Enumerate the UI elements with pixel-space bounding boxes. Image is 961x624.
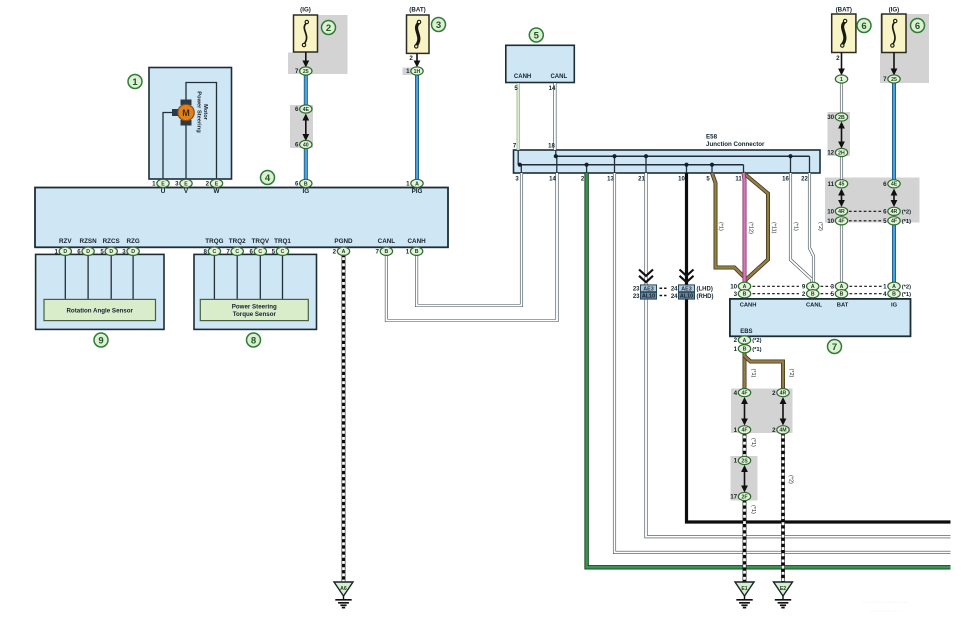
svg-text:(*2): (*2) (902, 285, 911, 291)
svg-text:7: 7 (832, 342, 837, 353)
svg-text:5: 5 (883, 218, 887, 225)
svg-text:C: C (213, 249, 217, 255)
svg-text:9: 9 (802, 284, 806, 291)
svg-text:2B: 2B (838, 115, 845, 121)
svg-text:(IG): (IG) (300, 7, 311, 14)
svg-text:E: E (161, 181, 165, 187)
svg-text:6: 6 (295, 142, 299, 149)
svg-text:TRQV: TRQV (252, 238, 270, 245)
svg-text:(*1): (*1) (752, 347, 761, 353)
svg-text:E: E (184, 181, 188, 187)
svg-text:E1: E1 (741, 586, 747, 592)
svg-text:PGND: PGND (334, 238, 353, 245)
svg-text:Power Steering: Power Steering (196, 91, 202, 133)
svg-text:··············: ·············· (869, 608, 902, 615)
svg-text:RZSN: RZSN (80, 238, 98, 245)
svg-text:22: 22 (801, 176, 808, 182)
svg-text:6: 6 (915, 21, 920, 32)
svg-text:2S: 2S (741, 458, 748, 464)
svg-text:CANL: CANL (378, 238, 396, 245)
svg-text:4E: 4E (891, 182, 898, 188)
svg-text:(*1): (*1) (750, 505, 756, 514)
svg-text:4R: 4R (838, 209, 845, 215)
svg-text:D: D (86, 249, 90, 255)
svg-text:(*1): (*1) (750, 438, 756, 447)
svg-text:IG: IG (891, 302, 898, 308)
svg-text:6: 6 (861, 21, 866, 32)
svg-text:B: B (743, 292, 747, 298)
svg-text:1: 1 (840, 77, 843, 83)
svg-text:14: 14 (549, 86, 556, 92)
svg-text:7: 7 (513, 143, 517, 149)
svg-text:5: 5 (100, 249, 104, 256)
svg-text:4R: 4R (780, 391, 787, 397)
svg-text:Rotation Angle Sensor: Rotation Angle Sensor (66, 307, 133, 314)
svg-text:W: W (214, 188, 220, 195)
svg-text:B: B (743, 347, 747, 353)
svg-text:CANH: CANH (740, 302, 757, 308)
svg-text:5: 5 (272, 249, 276, 256)
svg-text:3: 3 (831, 284, 835, 291)
svg-text:B: B (415, 249, 419, 255)
svg-text:1: 1 (54, 249, 58, 256)
svg-text:····················: ···················· (862, 599, 909, 606)
svg-text:14: 14 (549, 176, 556, 182)
svg-text:2: 2 (581, 176, 585, 182)
svg-text:4: 4 (265, 173, 271, 184)
svg-text:B: B (385, 249, 389, 255)
svg-text:2: 2 (326, 23, 331, 34)
svg-text:RZCS: RZCS (103, 238, 120, 245)
svg-text:6: 6 (883, 209, 887, 216)
svg-text:4: 4 (734, 390, 738, 397)
svg-text:3: 3 (122, 249, 126, 256)
svg-text:10: 10 (827, 218, 834, 225)
svg-text:10: 10 (827, 209, 834, 216)
svg-text:3: 3 (436, 20, 441, 31)
svg-text:2H: 2H (838, 150, 845, 156)
svg-text:1H: 1H (414, 69, 421, 75)
svg-text:21: 21 (638, 176, 645, 182)
svg-text:25: 25 (303, 69, 309, 75)
svg-text:A6: A6 (340, 586, 347, 592)
svg-text:(BAT): (BAT) (409, 7, 425, 14)
svg-text:(*2): (*2) (752, 338, 761, 344)
svg-text:(*1): (*1) (793, 222, 799, 231)
svg-text:1: 1 (883, 284, 887, 291)
svg-text:AE3: AE3 (643, 286, 654, 292)
svg-text:45: 45 (839, 182, 845, 188)
svg-text:(*11): (*11) (771, 222, 777, 234)
svg-text:3: 3 (515, 176, 519, 182)
svg-text:7: 7 (226, 249, 230, 256)
svg-text:(*2): (*2) (788, 475, 794, 484)
svg-text:2: 2 (836, 55, 840, 62)
svg-text:1: 1 (152, 181, 156, 188)
svg-text:RZV: RZV (59, 238, 72, 245)
svg-text:40: 40 (303, 142, 309, 148)
svg-text:3: 3 (175, 181, 179, 188)
svg-text:1: 1 (406, 181, 410, 188)
svg-text:5: 5 (534, 30, 540, 41)
svg-text:2F: 2F (741, 494, 747, 500)
svg-text:8: 8 (251, 335, 256, 346)
svg-text:8: 8 (204, 249, 208, 256)
svg-text:C: C (281, 249, 285, 255)
svg-text:D: D (63, 249, 67, 255)
svg-text:2: 2 (734, 337, 738, 344)
svg-text:4E: 4E (303, 107, 310, 113)
svg-text:4F: 4F (838, 219, 844, 225)
svg-text:6: 6 (249, 249, 253, 256)
svg-text:24: 24 (671, 294, 678, 300)
svg-text:Motor: Motor (202, 104, 208, 121)
svg-text:(*1): (*1) (902, 292, 911, 298)
svg-text:24: 24 (671, 287, 678, 293)
svg-text:13: 13 (607, 176, 614, 182)
svg-text:1: 1 (132, 77, 138, 88)
svg-text:A: A (342, 249, 346, 255)
svg-text:2: 2 (772, 427, 776, 434)
svg-text:12: 12 (827, 150, 834, 157)
svg-text:30: 30 (827, 114, 834, 121)
svg-text:M: M (182, 108, 190, 118)
svg-text:BAT: BAT (837, 302, 849, 308)
svg-text:7: 7 (883, 76, 887, 83)
svg-text:Junction Connector: Junction Connector (706, 141, 765, 148)
svg-text:(*2): (*2) (817, 222, 823, 231)
svg-text:25: 25 (891, 77, 897, 83)
svg-text:E58: E58 (706, 134, 718, 141)
svg-text:TRQ2: TRQ2 (229, 238, 246, 245)
svg-text:A: A (743, 338, 747, 344)
svg-text:1: 1 (734, 427, 738, 434)
svg-text:CANL: CANL (806, 302, 823, 308)
svg-text:4F: 4F (741, 428, 747, 434)
svg-text:(IG): (IG) (889, 7, 900, 14)
svg-text:CANL: CANL (550, 74, 567, 80)
svg-text:1: 1 (406, 68, 410, 75)
svg-text:CANH: CANH (514, 74, 531, 80)
svg-text:(*2): (*2) (788, 369, 794, 378)
svg-text:(*12): (*12) (748, 222, 754, 234)
svg-text:2: 2 (772, 390, 776, 397)
svg-text:6: 6 (295, 181, 299, 188)
svg-text:4R: 4R (891, 209, 898, 215)
svg-text:D: D (131, 249, 135, 255)
svg-text:1: 1 (734, 346, 738, 353)
svg-text:6: 6 (883, 181, 887, 188)
svg-text:TRQ1: TRQ1 (274, 238, 291, 245)
svg-text:4F: 4F (741, 391, 747, 397)
svg-text:EBS: EBS (740, 329, 752, 335)
svg-text:B: B (892, 292, 896, 298)
svg-text:Power Steering: Power Steering (232, 304, 277, 311)
svg-text:17: 17 (730, 494, 737, 501)
svg-text:23: 23 (633, 294, 640, 300)
svg-text:RZG: RZG (126, 238, 139, 245)
svg-text:(*1): (*1) (718, 222, 724, 231)
svg-text:(RHD): (RHD) (697, 294, 714, 300)
svg-text:11: 11 (735, 176, 742, 182)
svg-text:AL10: AL10 (642, 294, 655, 300)
svg-text:C: C (235, 249, 239, 255)
svg-text:Torque Sensor: Torque Sensor (233, 311, 277, 318)
svg-text:E: E (215, 181, 219, 187)
svg-text:CANH: CANH (407, 238, 426, 245)
svg-text:(*2): (*2) (902, 210, 911, 216)
svg-text:4M: 4M (779, 428, 786, 434)
svg-text:5: 5 (831, 291, 835, 298)
svg-text:B: B (840, 292, 844, 298)
svg-text:10: 10 (678, 176, 685, 182)
svg-text:5: 5 (706, 176, 710, 182)
svg-text:(LHD): (LHD) (697, 287, 713, 293)
svg-text:B: B (811, 292, 815, 298)
svg-text:10: 10 (730, 284, 737, 291)
svg-text:TRQG: TRQG (205, 238, 223, 245)
svg-text:D: D (109, 249, 113, 255)
svg-text:7: 7 (376, 249, 380, 256)
svg-text:2: 2 (333, 249, 337, 256)
svg-text:(*1): (*1) (750, 369, 756, 378)
svg-text:1: 1 (734, 458, 738, 465)
svg-text:E2: E2 (780, 586, 786, 592)
svg-text:2: 2 (802, 291, 806, 298)
svg-text:16: 16 (782, 176, 789, 182)
svg-text:4: 4 (883, 291, 887, 298)
svg-text:2: 2 (409, 55, 413, 62)
svg-text:7: 7 (295, 68, 299, 75)
svg-text:PIG: PIG (412, 188, 423, 195)
svg-text:(BAT): (BAT) (836, 7, 852, 14)
svg-text:3: 3 (734, 291, 738, 298)
svg-text:9: 9 (98, 335, 103, 346)
svg-text:6: 6 (77, 249, 81, 256)
svg-text:IG: IG (302, 188, 309, 195)
svg-text:B: B (304, 181, 308, 187)
svg-text:4F: 4F (891, 219, 897, 225)
svg-text:C: C (258, 249, 262, 255)
svg-text:2: 2 (206, 181, 210, 188)
svg-text:23: 23 (633, 287, 640, 293)
svg-text:1: 1 (406, 249, 410, 256)
svg-text:A: A (415, 181, 419, 187)
svg-text:(*1): (*1) (902, 219, 911, 225)
svg-text:AE3: AE3 (681, 286, 692, 292)
svg-text:AL10: AL10 (680, 294, 693, 300)
svg-text:18: 18 (548, 143, 555, 149)
svg-text:6: 6 (295, 106, 299, 113)
svg-text:U: U (161, 188, 166, 195)
svg-text:11: 11 (828, 181, 835, 188)
